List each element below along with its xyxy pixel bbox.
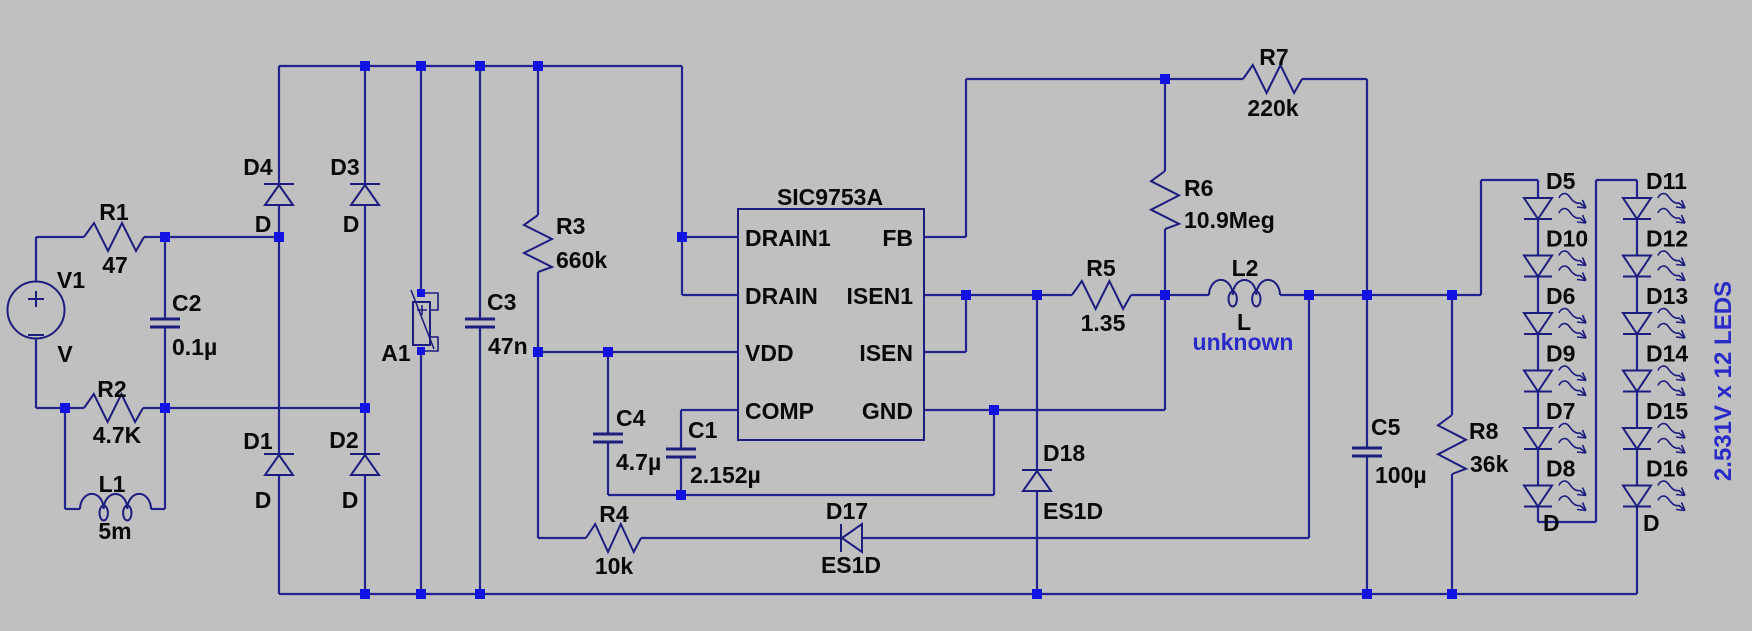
svg-text:R3: R3 xyxy=(556,213,585,239)
svg-text:D3: D3 xyxy=(330,154,359,180)
svg-text:ISEN: ISEN xyxy=(859,340,913,366)
svg-text:D2: D2 xyxy=(329,427,358,453)
svg-text:D1: D1 xyxy=(243,428,273,454)
svg-text:D6: D6 xyxy=(1546,283,1575,309)
svg-text:D: D xyxy=(255,487,272,513)
svg-text:0.1µ: 0.1µ xyxy=(172,334,217,360)
svg-text:4.7µ: 4.7µ xyxy=(616,449,661,475)
svg-text:R8: R8 xyxy=(1469,418,1499,444)
svg-text:SIC9753A: SIC9753A xyxy=(777,184,883,210)
svg-text:C2: C2 xyxy=(172,290,201,316)
svg-text:V1: V1 xyxy=(57,267,85,293)
svg-text:D9: D9 xyxy=(1546,341,1575,367)
svg-text:ISEN1: ISEN1 xyxy=(847,283,914,309)
svg-text:D: D xyxy=(343,211,360,237)
svg-text:L2: L2 xyxy=(1232,255,1259,281)
svg-text:4.7K: 4.7K xyxy=(93,422,142,448)
svg-text:VDD: VDD xyxy=(745,340,794,366)
svg-text:D: D xyxy=(1543,510,1560,536)
svg-text:ES1D: ES1D xyxy=(821,552,881,578)
svg-text:R2: R2 xyxy=(97,376,126,402)
svg-text:COMP: COMP xyxy=(745,398,814,424)
svg-text:D7: D7 xyxy=(1546,398,1575,424)
svg-text:L1: L1 xyxy=(99,471,126,497)
svg-text:R6: R6 xyxy=(1184,175,1213,201)
svg-text:C1: C1 xyxy=(688,417,718,443)
svg-text:D15: D15 xyxy=(1646,398,1688,424)
svg-text:R4: R4 xyxy=(599,501,629,527)
svg-text:D8: D8 xyxy=(1546,456,1576,482)
svg-text:2.152µ: 2.152µ xyxy=(690,462,761,488)
svg-text:R7: R7 xyxy=(1259,44,1288,70)
svg-text:D5: D5 xyxy=(1546,168,1576,194)
svg-text:10.9Meg: 10.9Meg xyxy=(1184,207,1275,233)
svg-text:47: 47 xyxy=(102,252,128,278)
svg-text:5m: 5m xyxy=(98,518,131,544)
svg-text:D10: D10 xyxy=(1546,226,1588,252)
svg-text:D16: D16 xyxy=(1646,456,1688,482)
svg-text:D18: D18 xyxy=(1043,440,1085,466)
svg-text:FB: FB xyxy=(882,225,913,251)
svg-text:D13: D13 xyxy=(1646,283,1688,309)
svg-text:D12: D12 xyxy=(1646,226,1688,252)
svg-text:GND: GND xyxy=(862,398,913,424)
svg-text:220k: 220k xyxy=(1247,95,1298,121)
svg-text:2.531V x 12 LEDS: 2.531V x 12 LEDS xyxy=(1710,281,1737,481)
svg-text:47n: 47n xyxy=(488,333,528,359)
svg-text:R1: R1 xyxy=(99,199,129,225)
svg-text:unknown: unknown xyxy=(1193,329,1294,355)
svg-text:D: D xyxy=(255,211,272,237)
svg-text:D: D xyxy=(1643,510,1660,536)
svg-text:V: V xyxy=(57,341,73,367)
svg-text:660k: 660k xyxy=(556,247,607,273)
svg-text:R5: R5 xyxy=(1086,255,1116,281)
svg-text:DRAIN1: DRAIN1 xyxy=(745,225,831,251)
svg-text:D14: D14 xyxy=(1646,341,1688,367)
svg-text:D: D xyxy=(342,487,359,513)
svg-text:ES1D: ES1D xyxy=(1043,498,1103,524)
svg-text:36k: 36k xyxy=(1470,451,1509,477)
svg-text:C3: C3 xyxy=(487,289,516,315)
svg-text:D4: D4 xyxy=(243,154,273,180)
svg-text:A1: A1 xyxy=(381,340,411,366)
svg-text:1.35: 1.35 xyxy=(1081,310,1126,336)
svg-text:C5: C5 xyxy=(1371,414,1401,440)
svg-text:DRAIN: DRAIN xyxy=(745,283,818,309)
svg-text:C4: C4 xyxy=(616,405,646,431)
svg-text:10k: 10k xyxy=(595,553,634,579)
svg-text:D17: D17 xyxy=(826,498,868,524)
svg-text:D11: D11 xyxy=(1646,168,1687,194)
svg-text:100µ: 100µ xyxy=(1375,462,1427,488)
